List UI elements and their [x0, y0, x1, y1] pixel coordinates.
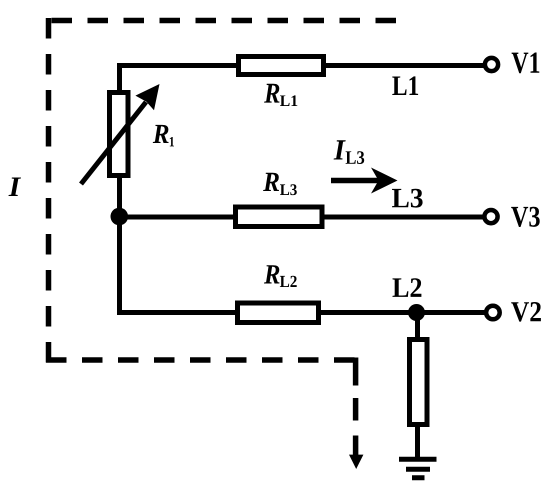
label R1 — [153, 125, 169, 143]
wire RL3 to V3 — [325, 215, 485, 220]
label IL3 — [334, 140, 346, 159]
label RL3 — [263, 173, 279, 191]
dashed current loop arrowhead — [349, 455, 363, 469]
dashed current loop top wire — [46, 18, 396, 24]
node junction A — [111, 208, 129, 226]
label V2 — [511, 302, 541, 322]
node L2 junction — [408, 304, 425, 321]
label L2 — [393, 278, 422, 297]
resistor load body — [410, 340, 428, 425]
terminal V3 — [484, 210, 497, 223]
wire junction to RL3 — [122, 215, 235, 220]
resistor RL2 body — [238, 303, 319, 323]
wire RL1 to V1 — [326, 63, 484, 68]
label RL2 — [264, 265, 280, 283]
current arrow IL3 — [331, 168, 398, 194]
dashed current loop exit wire — [353, 358, 359, 457]
label V1 — [512, 53, 540, 74]
label I — [9, 178, 22, 197]
resistor RL3 body — [236, 207, 323, 227]
resistor R1 (variable) body — [110, 93, 129, 176]
label V3 — [511, 207, 540, 227]
terminal V2 — [486, 306, 500, 320]
wire load resistor to ground — [415, 424, 420, 459]
dashed current loop left wire — [46, 18, 52, 363]
terminal V1 — [485, 58, 498, 71]
wire R1 to junction — [117, 175, 122, 315]
label RL1 — [264, 84, 279, 103]
ground — [399, 459, 437, 478]
wire RL2 to V2 — [319, 310, 487, 315]
resistor R1 arrow — [81, 84, 160, 184]
label L1 — [392, 76, 418, 95]
wire bottom corner to RL2 — [120, 310, 236, 313]
label L3 — [392, 189, 423, 208]
resistor RL1 body — [239, 57, 324, 75]
wire L2 node to load resistor — [415, 315, 420, 341]
dashed current loop bottom wire — [46, 357, 358, 363]
wire top corner to RL1 — [120, 66, 237, 93]
